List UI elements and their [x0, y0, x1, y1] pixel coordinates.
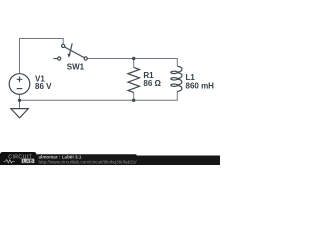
node junction dot top R1 [132, 57, 135, 60]
wire top-left from V1 up and right to switch [20, 39, 64, 74]
label R1 value [143, 71, 161, 88]
logo LAB badge [22, 159, 35, 163]
ground [11, 109, 28, 118]
watermark attribution box [36, 154, 137, 165]
node junction dot bottom left [18, 99, 21, 102]
label V1 value [35, 75, 52, 91]
wire bottom rail [20, 91, 178, 100]
watermark logo box [0, 152, 37, 165]
svg-text:86 V: 86 V [35, 82, 52, 91]
watermark footer bar [0, 156, 220, 166]
wire ground stub [19, 100, 21, 108]
wire R1 top stub [133, 59, 135, 68]
wire V1 bottom lead [19, 94, 21, 100]
logo waveform [4, 160, 15, 163]
wire R1 bottom stub [133, 93, 135, 101]
wire from switch common right to top-right corner down to L1 [87, 59, 177, 67]
switch SW1 [54, 43, 88, 60]
switch arrow head [68, 54, 71, 58]
svg-text:860 mH: 860 mH [186, 82, 215, 91]
resistor R1 [128, 67, 140, 92]
label L1 value [186, 73, 215, 91]
svg-text:http://www.circuitlab.com/circ: http://www.circuitlab.com/circuit/6knbq3… [39, 159, 138, 164]
node junction dot bottom R1 [132, 99, 135, 102]
voltage source V1 [9, 74, 30, 95]
svg-text:86 Ω: 86 Ω [143, 79, 161, 88]
inductor L1 [171, 66, 182, 91]
svg-text:L1: L1 [186, 73, 196, 82]
svg-text:LAB: LAB [23, 158, 33, 163]
svg-text:SW1: SW1 [67, 63, 85, 72]
